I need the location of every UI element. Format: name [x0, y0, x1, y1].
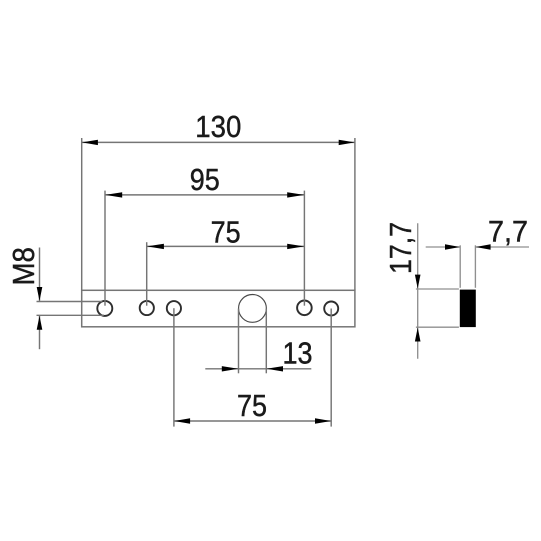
dimension line 75 (bottom) — [174, 420, 331, 422]
arrowhead 13 right (pointing left) — [267, 366, 284, 371]
M8 dimension line lower segment — [39, 316, 41, 349]
arrowhead 130 right — [339, 140, 355, 145]
hole H1 (M8 tapped hole) — [97, 301, 112, 316]
hole H5 — [297, 301, 312, 316]
svg-text:M8: M8 — [6, 247, 41, 286]
extension line left (dim 95, from hole H1) — [104, 191, 106, 306]
arrowhead 17,7 up — [415, 328, 421, 342]
svg-text:17,7: 17,7 — [383, 222, 418, 274]
arrowhead M8 up — [37, 316, 43, 330]
side view top edge — [416, 288, 459, 290]
arrowhead 13 left (pointing right) — [222, 366, 239, 371]
arrowhead 75 bottom left — [174, 418, 190, 423]
dimension line 75 (top) — [147, 245, 305, 247]
arrowhead 7,7 right (pointing left) — [476, 244, 491, 249]
extension line right (dim 75 bottom, from hole H6) — [330, 309, 332, 427]
M8 leader line upper tangent — [37, 301, 103, 303]
arrowhead M8 down — [37, 287, 43, 301]
arrowhead 75 bottom right — [315, 418, 331, 423]
hole H3 — [167, 301, 181, 315]
svg-text:75: 75 — [237, 388, 267, 423]
M8 dimension line upper segment — [39, 248, 41, 301]
svg-text:13: 13 — [283, 336, 313, 371]
svg-text:130: 130 — [195, 109, 241, 144]
arrowhead 17,7 down — [415, 275, 421, 289]
svg-text:75: 75 — [211, 215, 241, 250]
dimension line 17,7 (also side view left edge) — [417, 223, 419, 358]
arrowhead 75 top right — [287, 244, 304, 249]
plate outline (front view of mounting bar) — [82, 290, 355, 327]
M8 leader line lower tangent — [37, 314, 104, 316]
dimension line 95 — [105, 194, 304, 196]
extension line right (dim 130, plate right edge) — [354, 138, 356, 290]
arrowhead 75 top left — [147, 244, 164, 249]
extension line right (dims 95/75, from hole H5) — [303, 191, 305, 306]
extension line left (dim 75 top, from hole H2) — [146, 242, 148, 306]
dimension line 130 — [82, 141, 355, 143]
dimension line 7,7 left segment — [426, 246, 461, 248]
extension line right (dim 13, centre hole tangent) — [265, 309, 267, 374]
extension line left (dim 7,7) — [459, 245, 461, 287]
svg-text:95: 95 — [190, 162, 220, 197]
hole H2 — [140, 301, 154, 315]
dimension line 13 — [205, 368, 311, 370]
arrowhead 7,7 left (pointing right) — [445, 244, 460, 249]
dimension line 7,7 right segment — [475, 246, 529, 248]
extension line left (dim 13, centre hole tangent) — [238, 309, 240, 374]
centre hole (diameter 13) — [239, 295, 267, 323]
side view bottom edge — [416, 326, 459, 328]
side view filled section (7.7 wide) — [460, 290, 476, 328]
hole H6 — [324, 302, 338, 316]
extension line right (dim 7,7) — [474, 245, 476, 287]
extension line left (dim 130, plate left edge) — [81, 138, 83, 290]
arrowhead 95 right — [287, 192, 304, 197]
svg-text:7,7: 7,7 — [488, 216, 528, 249]
arrowhead 95 left — [105, 192, 122, 197]
arrowhead 130 left — [82, 140, 98, 145]
extension line left (dim 75 bottom, from hole H3) — [173, 308, 175, 426]
